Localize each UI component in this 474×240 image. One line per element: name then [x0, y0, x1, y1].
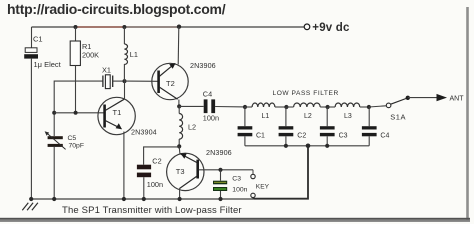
- capacitor C4 coupling: [179, 105, 203, 107]
- wire T1 emitter down: [123, 132, 125, 200]
- node rail C3: [218, 197, 222, 201]
- terminal KEY top: [252, 170, 254, 175]
- svg-text:T1: T1: [113, 108, 122, 117]
- svg-text:LOW PASS FILTER: LOW PASS FILTER: [273, 90, 339, 97]
- wire R1 top: [75, 27, 77, 41]
- svg-text:T2: T2: [166, 79, 175, 88]
- wire T3 emitter top: [178, 146, 181, 153]
- capacitor C5 trimmer: [48, 136, 63, 139]
- svg-text:S1A: S1A: [390, 113, 406, 122]
- svg-text:L1: L1: [262, 113, 270, 120]
- svg-text:C3: C3: [232, 175, 241, 182]
- capacitor C1 electrolytic: [25, 48, 37, 53]
- terminal KEY bottom: [251, 193, 255, 197]
- wire C1 top: [31, 27, 33, 48]
- node rail-R1: [74, 25, 78, 29]
- wire switch to ant: [408, 97, 437, 99]
- wire T3 collector down: [179, 188, 181, 199]
- svg-text:C1: C1: [256, 132, 265, 139]
- node C3 top: [218, 168, 222, 172]
- capacitor C2: [137, 165, 151, 170]
- wire C2 bottom: [143, 177, 145, 199]
- node bus return: [306, 144, 311, 149]
- svg-text:http://radio-circuits.blogspot: http://radio-circuits.blogspot.com/: [7, 1, 226, 17]
- capacitor C2 filter: [285, 107, 287, 126]
- terminal +9v: [304, 24, 310, 30]
- inductor L2: [178, 106, 180, 113]
- node rail T3c: [178, 197, 182, 201]
- node rail C5: [52, 197, 56, 201]
- svg-text:C3: C3: [339, 132, 348, 139]
- transistor T2 2N3906: [152, 63, 188, 99]
- wire C5 bottom: [53, 147, 55, 199]
- bottom shadow bar: [0, 218, 470, 220]
- svg-text:2N3906: 2N3906: [190, 61, 216, 70]
- svg-text:100n: 100n: [147, 180, 163, 189]
- right border line: [466, 7, 469, 220]
- wire filter ground bus: [245, 145, 369, 147]
- wire T2 base: [125, 80, 158, 82]
- inductor L3 filter: [328, 106, 336, 108]
- wire X1 right: [113, 80, 125, 82]
- svg-text:2N3906: 2N3906: [206, 148, 232, 157]
- svg-text:The SP1 Transmitter with Low-p: The SP1 Transmitter with Low-pass Filter: [62, 205, 242, 216]
- ground symbol: [22, 203, 38, 210]
- node filter in: [243, 105, 247, 109]
- node L2 bottom junction: [177, 144, 181, 148]
- node rail C1: [29, 197, 33, 201]
- wire bottom rail: [31, 198, 253, 200]
- wire C5 branch vertical: [53, 113, 55, 136]
- wire ground return leg: [253, 146, 308, 199]
- wire to switch: [369, 106, 386, 107]
- svg-text:C5: C5: [68, 135, 77, 142]
- wire C3 bottom: [220, 191, 222, 199]
- wire top supply rail: [32, 26, 305, 28]
- node rail T1e: [122, 197, 126, 201]
- svg-text:T3: T3: [176, 167, 185, 176]
- node rail C2: [142, 197, 146, 201]
- svg-text:1μ Elect: 1μ Elect: [34, 60, 62, 69]
- node X1-L1-T1 junction: [123, 79, 127, 83]
- wire red tinted rail segment: [76, 26, 125, 28]
- svg-text:C1: C1: [33, 35, 43, 44]
- wire R1 bottom: [75, 66, 77, 113]
- wire T3 base right: [199, 169, 253, 171]
- capacitor C3 green: [220, 170, 222, 181]
- svg-text:ANT: ANT: [450, 95, 465, 102]
- svg-text:R1: R1: [82, 42, 91, 51]
- svg-text:C2: C2: [152, 156, 161, 165]
- node filter n4: [367, 105, 371, 109]
- svg-text:L2: L2: [304, 113, 312, 120]
- svg-text:100n: 100n: [232, 187, 247, 194]
- node filter n2: [284, 105, 288, 109]
- svg-text:100n: 100n: [203, 114, 219, 123]
- wire crystal branch horizontal: [54, 81, 103, 113]
- transistor T1 2N3904: [98, 97, 135, 134]
- switch S1A: [386, 103, 391, 108]
- svg-text:C4: C4: [380, 132, 389, 139]
- transistor T3 2N3906: [167, 153, 204, 190]
- node T2 collector junction: [177, 104, 181, 108]
- capacitor C3 filter: [326, 107, 328, 126]
- svg-text:L2: L2: [188, 123, 196, 132]
- wire base line: [54, 112, 103, 114]
- svg-text:C2: C2: [297, 132, 306, 139]
- svg-text:+9v dc: +9v dc: [312, 22, 350, 34]
- wire T2 collector down: [178, 100, 180, 107]
- svg-text:70pF: 70pF: [69, 142, 85, 149]
- node bus C3: [325, 144, 329, 148]
- svg-text:200K: 200K: [82, 51, 99, 60]
- wire C2 top: [144, 147, 180, 165]
- capacitor C4 filter: [368, 107, 370, 126]
- wire T1 collector up: [124, 81, 126, 100]
- svg-text:L1: L1: [130, 50, 138, 59]
- node filter n3: [326, 105, 330, 109]
- svg-text:X1: X1: [102, 66, 111, 75]
- inductor L1 filter: [245, 106, 252, 108]
- svg-text:C4: C4: [203, 90, 212, 99]
- node base line left: [52, 111, 56, 115]
- node rail-L1: [122, 25, 126, 29]
- antenna arrow: [437, 94, 448, 101]
- node bus C2: [284, 144, 288, 148]
- svg-text:L3: L3: [344, 113, 352, 120]
- svg-text:2N3904: 2N3904: [131, 128, 157, 137]
- node base-R1: [74, 111, 78, 115]
- crystal X1: [102, 76, 104, 88]
- resistor R1: [70, 41, 80, 66]
- inductor L2 filter: [286, 106, 293, 108]
- wire C1 bottom: [30, 59, 32, 199]
- wire T2 emitter up: [177, 27, 180, 65]
- node rail-T2 emitter: [177, 25, 181, 29]
- inductor L1: [123, 27, 125, 44]
- svg-text:KEY: KEY: [256, 183, 270, 190]
- capacitor C1 filter: [244, 107, 246, 126]
